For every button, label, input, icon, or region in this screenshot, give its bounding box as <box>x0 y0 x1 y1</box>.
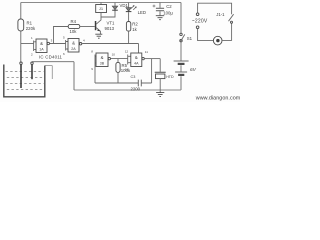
svg-text:www.diangon.com: www.diangon.com <box>195 95 240 101</box>
svg-text:2200: 2200 <box>131 87 141 92</box>
svg-text:LED: LED <box>138 10 146 15</box>
svg-text:3: 3 <box>51 38 53 42</box>
svg-text:C3: C3 <box>131 75 136 79</box>
svg-text:10k: 10k <box>70 29 78 34</box>
svg-text:S1: S1 <box>187 36 193 41</box>
svg-text:HTD: HTD <box>166 75 174 79</box>
svg-text:&: & <box>40 41 43 46</box>
svg-text:3B: 3B <box>100 62 105 66</box>
svg-text:1: 1 <box>31 36 33 40</box>
svg-text:5: 5 <box>63 35 65 39</box>
svg-text:R1: R1 <box>27 21 33 26</box>
svg-text:&: & <box>72 40 75 45</box>
svg-text:2A: 2A <box>71 47 76 51</box>
svg-text:1A: 1A <box>39 48 44 52</box>
svg-text:~220V: ~220V <box>192 18 208 24</box>
svg-text:12: 12 <box>125 50 129 54</box>
svg-text:4: 4 <box>83 38 85 42</box>
svg-text:J1-1: J1-1 <box>216 12 225 17</box>
svg-text:C2: C2 <box>166 4 172 9</box>
svg-text:VT1: VT1 <box>107 20 115 25</box>
svg-text:1k: 1k <box>132 27 137 32</box>
svg-text:11: 11 <box>145 50 148 54</box>
svg-text:&: & <box>101 55 104 60</box>
svg-text:100µ: 100µ <box>163 11 173 16</box>
svg-text:6: 6 <box>63 52 65 56</box>
svg-text:8: 8 <box>91 50 93 54</box>
svg-text:IC CD4011: IC CD4011 <box>39 55 63 60</box>
svg-text:J1: J1 <box>99 6 104 11</box>
svg-text:4A: 4A <box>134 62 139 66</box>
svg-text:9013: 9013 <box>105 26 115 31</box>
svg-text:10: 10 <box>112 53 116 57</box>
svg-text:6V: 6V <box>190 67 197 73</box>
svg-text:&: & <box>135 55 138 60</box>
svg-text:VD1: VD1 <box>120 3 129 8</box>
svg-text:220k: 220k <box>26 26 36 31</box>
svg-text:2: 2 <box>31 53 33 57</box>
svg-text:R4: R4 <box>71 19 77 24</box>
svg-text:9: 9 <box>91 67 93 71</box>
svg-text:13: 13 <box>125 67 129 71</box>
